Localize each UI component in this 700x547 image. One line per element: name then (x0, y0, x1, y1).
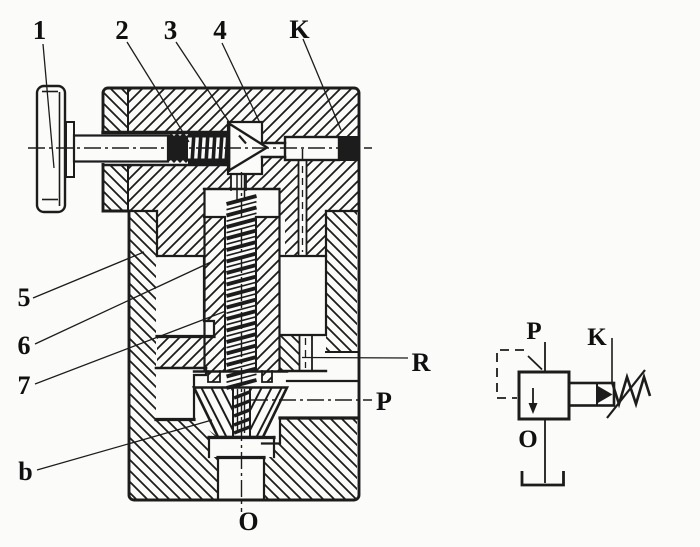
boss joint line lower (127, 166, 129, 211)
bonnet block below cone cavity hatch (246, 174, 285, 189)
bonnet block below plug left of duct hatch (279, 160, 298, 256)
pocket2 top edge (156, 367, 206, 370)
bonnet block below neck slit hatch (262, 157, 285, 174)
svg-text:P: P (526, 318, 541, 345)
symbol actuator box (569, 383, 614, 406)
svg-text:O: O (518, 426, 537, 453)
bore white (103, 131, 229, 166)
vertical centerline O (241, 172, 243, 512)
leader K (303, 39, 341, 130)
P port centerline (251, 399, 372, 401)
valve bonnet top band hatch (128, 88, 359, 143)
symbol main box (519, 372, 569, 419)
O channel edges (218, 458, 264, 500)
P channel bottom thick edge (280, 416, 357, 419)
svg-text:4: 4 (213, 15, 227, 45)
spring slot edges (225, 217, 256, 371)
seat pocket white (209, 437, 274, 457)
R chamber white (280, 256, 326, 335)
leader 5 (33, 252, 144, 298)
adjusting spring 2 top band (188, 132, 229, 138)
seat right step hatch (274, 444, 280, 458)
R chamber outline (280, 256, 326, 335)
leader 2 (127, 42, 189, 142)
neck slit bottom line (262, 156, 285, 159)
right wall recess white (326, 352, 357, 380)
main spring lower narrow coils (234, 392, 250, 433)
svg-text:2: 2 (115, 15, 129, 45)
lower duct edges (300, 335, 313, 371)
upper stem duct white (231, 174, 246, 189)
leader 1 (43, 44, 54, 168)
pocket2 step outline (194, 368, 206, 419)
valve body outer outline (103, 88, 359, 500)
right recess top edge (326, 351, 357, 353)
plug inner port line (302, 149, 304, 160)
funnel slot edges (233, 388, 250, 438)
symbol actuator divider (596, 383, 598, 406)
symbol tank (522, 471, 564, 485)
sleeve right wall hatch (256, 217, 280, 371)
lower duct and recess white (299, 335, 326, 371)
left pocket 2 white (156, 368, 206, 419)
O channel white (218, 457, 264, 500)
symbol pilot triangle (597, 386, 613, 404)
svg-text:R: R (412, 348, 431, 377)
upper stem duct edges (231, 174, 246, 190)
symbol adjust arrow (607, 370, 645, 418)
lower duct bottom line (280, 370, 326, 372)
screw shaft (74, 136, 168, 162)
knob bottom tick (42, 199, 58, 201)
adjusting spring 2 coil bars (192, 133, 228, 163)
black seal at K (339, 136, 358, 161)
adjusting spring 2 bottom band (188, 159, 229, 165)
symbol O line (544, 419, 546, 483)
leader 4 (222, 43, 260, 123)
svg-text:6: 6 (18, 331, 31, 360)
leader R (302, 357, 408, 360)
svg-text:7: 7 (18, 371, 31, 400)
spring chamber top edge (204, 188, 279, 190)
duct2 hidden centerline (302, 166, 304, 252)
svg-text:K: K (289, 15, 310, 44)
left pocket 1 white (157, 256, 214, 336)
P channel step line (287, 380, 357, 382)
flange collar (66, 122, 74, 177)
symbol flow arrow head (529, 403, 538, 414)
sleeve left edge (203, 189, 205, 371)
sleeve bottom edge (194, 370, 287, 372)
bonnet right wall above R chamber hatch (307, 211, 326, 256)
spring slot white (225, 217, 256, 371)
knob top tick (42, 91, 58, 93)
funnel slot white (233, 388, 250, 437)
duct below plug edges (299, 160, 307, 256)
cone cavity white (228, 122, 262, 174)
sleeve left lip (208, 371, 220, 382)
seat pocket sides (209, 437, 274, 457)
sleeve left wall hatch (204, 217, 225, 371)
block left of lower duct hatch (280, 335, 299, 371)
symbol flow arrow shaft (532, 388, 534, 404)
main spring 7 coils (227, 196, 257, 388)
symbol spring zigzag (612, 377, 650, 404)
bottom-right block left edge (262, 418, 280, 444)
joint line right y211 (326, 210, 359, 212)
bore bottom line (103, 164, 228, 167)
erase bore through boss face (99, 134, 105, 163)
knob inner face line (59, 92, 61, 206)
neck slit white (262, 143, 285, 157)
svg-text:3: 3 (164, 15, 178, 45)
sleeve flange band hatch (157, 336, 214, 368)
pocket1 outline (157, 256, 214, 336)
adjusting nut boss hatch (103, 88, 128, 211)
pilot stem lines upper (237, 174, 245, 200)
svg-text:K: K (587, 324, 607, 351)
leader b (37, 420, 212, 470)
pocket1 bottom thick edge (157, 335, 214, 338)
svg-text:1: 1 (33, 15, 47, 45)
spring chamber white (204, 189, 279, 217)
symbol diagonal tick (528, 356, 542, 370)
threaded end of screw (168, 133, 188, 163)
O channel left strip hatch (209, 457, 218, 500)
bonnet left block below bore hatch (128, 166, 231, 256)
plug chamber white (285, 137, 339, 160)
housing bottom-right block hatch (280, 419, 357, 501)
poppet funnel outline (194, 388, 287, 438)
duct3 hidden centerline (305, 338, 307, 368)
funnel slot stem lines (238, 389, 245, 433)
svg-text:5: 5 (18, 283, 31, 312)
white right of funnel slope (262, 388, 287, 444)
leader 3 (176, 42, 231, 125)
seat step thick edge (218, 456, 264, 459)
plug K outline (285, 137, 339, 160)
pocket2 bottom thick edge (156, 418, 194, 421)
pilot cone poppet 3/4 (229, 124, 267, 171)
sleeve right edge (278, 189, 280, 371)
sleeve right lip (262, 371, 272, 382)
housing left wall hatch (129, 211, 156, 500)
duct below plug white (298, 160, 307, 256)
leader 7 (35, 311, 226, 384)
joint line right vertical x326 (325, 211, 327, 256)
funnel bottom thick edge (209, 436, 274, 439)
symbol pilot dashed line (497, 350, 524, 398)
spring chamber bottom edges (204, 216, 279, 218)
neck slit top line (262, 142, 285, 145)
joint line left y211 (103, 210, 157, 212)
O channel right strip hatch (264, 457, 280, 500)
poppet funnel right half hatch (225, 385, 363, 440)
boss joint line upper (127, 88, 129, 131)
cone cavity outline (228, 122, 262, 174)
leader 6 (35, 262, 211, 344)
poppet funnel left half hatch (170, 385, 308, 440)
svg-text:O: O (238, 507, 258, 536)
housing right wall hatch (326, 211, 357, 352)
svg-text:b: b (18, 457, 32, 486)
joint line left vertical x157 (156, 211, 158, 256)
cone inner stroke (239, 136, 246, 144)
P channel white (287, 371, 357, 418)
handwheel knob (37, 86, 65, 212)
bore top line (103, 131, 228, 134)
svg-text:P: P (376, 387, 392, 416)
housing bottom-left block hatch (156, 419, 218, 500)
cone base line (228, 123, 231, 173)
horizontal centerline (28, 147, 372, 149)
symbol K line (611, 338, 613, 384)
under-sleeve white band (194, 371, 287, 386)
bonnet right wall upper hatch (307, 160, 359, 211)
symbol P supply line (544, 342, 546, 372)
